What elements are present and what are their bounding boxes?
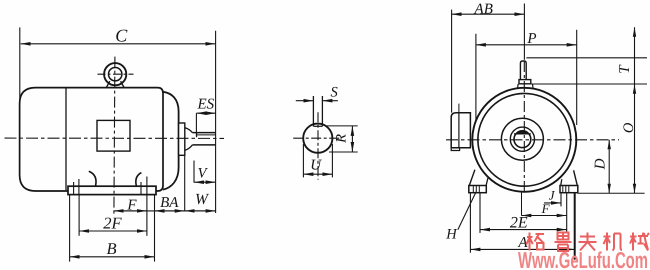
- svg-text:S: S: [330, 85, 338, 101]
- svg-text:B: B: [107, 239, 117, 258]
- svg-text:J: J: [549, 188, 556, 203]
- svg-text:2E: 2E: [510, 215, 528, 232]
- svg-text:U: U: [310, 158, 322, 174]
- svg-text:ES: ES: [196, 97, 214, 113]
- svg-text:R: R: [334, 134, 350, 144]
- svg-text:T: T: [617, 64, 633, 74]
- svg-text:P: P: [526, 31, 536, 47]
- svg-text:D: D: [593, 158, 609, 170]
- svg-text:H: H: [445, 227, 458, 243]
- svg-text:C: C: [115, 26, 128, 46]
- svg-text:Www.GeLufu.Com: Www.GeLufu.Com: [518, 247, 648, 270]
- svg-text:2F: 2F: [103, 213, 122, 232]
- svg-text:BA: BA: [160, 195, 179, 211]
- svg-text:V: V: [198, 165, 209, 181]
- svg-text:F: F: [541, 201, 551, 216]
- svg-text:F: F: [126, 198, 137, 214]
- svg-text:W: W: [195, 191, 210, 208]
- svg-text:AB: AB: [474, 2, 493, 18]
- svg-text:O: O: [621, 122, 637, 133]
